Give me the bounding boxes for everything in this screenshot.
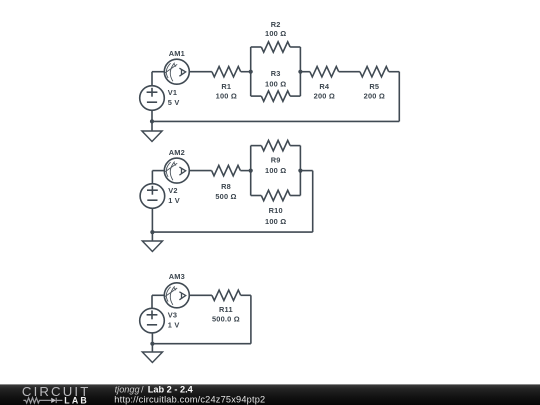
- svg-text:200 Ω: 200 Ω: [314, 92, 335, 101]
- svg-text:100 Ω: 100 Ω: [216, 92, 237, 101]
- svg-text:R1: R1: [221, 82, 231, 91]
- svg-text:V3: V3: [168, 311, 177, 320]
- svg-text:http://circuitlab.com/c24z75x9: http://circuitlab.com/c24z75x94ptp2: [114, 395, 265, 405]
- svg-text:AM2: AM2: [169, 148, 185, 157]
- svg-text:R5: R5: [369, 82, 379, 91]
- svg-text:100 Ω: 100 Ω: [265, 217, 286, 226]
- svg-text:100 Ω: 100 Ω: [265, 29, 286, 38]
- svg-text:AM3: AM3: [169, 272, 185, 281]
- svg-text:500.0 Ω: 500.0 Ω: [212, 315, 240, 324]
- svg-text:1 V: 1 V: [168, 196, 180, 205]
- svg-text:V2: V2: [168, 186, 177, 195]
- svg-text:tjongg: tjongg: [115, 385, 141, 395]
- svg-text:R3: R3: [271, 69, 281, 78]
- svg-text:R10: R10: [269, 206, 283, 215]
- svg-text:Lab 2 - 2.4: Lab 2 - 2.4: [148, 385, 194, 395]
- svg-text:/: /: [141, 385, 144, 395]
- svg-text:200 Ω: 200 Ω: [364, 92, 385, 101]
- svg-text:V1: V1: [168, 88, 177, 97]
- svg-text:100 Ω: 100 Ω: [265, 166, 286, 175]
- svg-text:R4: R4: [319, 82, 330, 91]
- svg-text:100 Ω: 100 Ω: [265, 79, 286, 88]
- svg-text:1 V: 1 V: [168, 321, 180, 330]
- svg-text:5 V: 5 V: [168, 98, 180, 107]
- svg-text:R2: R2: [271, 20, 281, 29]
- svg-text:LAB: LAB: [64, 396, 89, 405]
- svg-text:AM1: AM1: [169, 49, 185, 58]
- svg-text:R11: R11: [219, 305, 233, 314]
- svg-text:500 Ω: 500 Ω: [215, 192, 236, 201]
- svg-text:R8: R8: [221, 182, 231, 191]
- svg-text:R9: R9: [271, 155, 281, 164]
